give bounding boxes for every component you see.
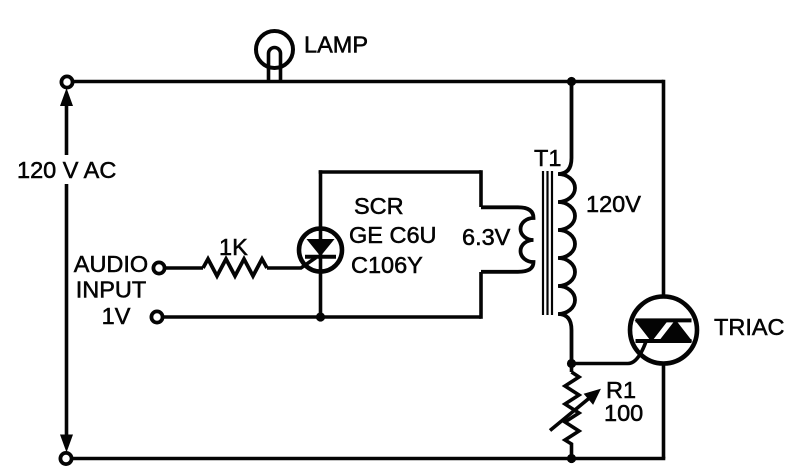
svg-text:AUDIO: AUDIO	[74, 251, 148, 277]
svg-text:INPUT: INPUT	[76, 277, 147, 303]
SCR GE C6U C106Y symbol	[299, 229, 342, 272]
svg-text:SCR: SCR	[354, 193, 404, 219]
node: AC terminal top-left	[61, 76, 72, 87]
wire audio lower lead	[163, 315, 481, 319]
svg-text:1K: 1K	[219, 234, 248, 260]
wire right rail upper	[662, 80, 666, 297]
120 V AC measurement arrow line	[61, 90, 73, 452]
svg-text:C106Y: C106Y	[351, 252, 423, 278]
resistor R1 100 variable	[565, 372, 579, 458]
wire loop right upper	[479, 170, 483, 207]
node: audio input terminal upper	[153, 262, 164, 273]
wire 1K to SCR gate	[267, 258, 316, 269]
junction dot gate / R1	[567, 359, 576, 368]
node: audio input terminal lower	[151, 311, 162, 322]
wire bottom rail	[71, 457, 665, 461]
svg-text:GE C6U: GE C6U	[349, 222, 437, 248]
svg-text:6.3V: 6.3V	[462, 224, 511, 250]
transformer T1 secondary winding 120V	[558, 82, 575, 365]
svg-text:LAMP: LAMP	[304, 32, 368, 58]
svg-text:120V: 120V	[586, 191, 641, 217]
node: AC terminal bottom-left	[60, 453, 71, 464]
wire loop right lower	[479, 272, 483, 319]
resistor 1K	[203, 259, 267, 276]
wire SCR loop top	[319, 170, 481, 174]
svg-text:T1: T1	[534, 145, 561, 171]
transformer T1 primary winding 6.3V	[481, 207, 534, 271]
R1 wiper arrow	[550, 390, 600, 431]
svg-text:120 V AC: 120 V AC	[17, 157, 116, 183]
wire audio upper lead	[165, 266, 203, 270]
triac TRIAC symbol	[630, 297, 697, 364]
wire triac gate	[572, 342, 647, 364]
svg-text:TRIAC: TRIAC	[714, 314, 785, 340]
wire right rail lower	[662, 363, 666, 459]
wire secondary to R1 / gate junction to bottom	[570, 364, 574, 372]
svg-text:1V: 1V	[102, 303, 131, 329]
transformer T1 core	[543, 171, 552, 315]
lamp	[256, 31, 293, 81]
junction dot bottom rail / R1	[567, 454, 576, 463]
svg-text:100: 100	[604, 400, 643, 426]
junction dot SCR cathode / lower lead	[316, 312, 325, 321]
SCR U1 anode/cathode vertical wire	[319, 170, 323, 317]
junction dot top rail / secondary	[567, 77, 576, 86]
wire top rail	[71, 80, 664, 84]
